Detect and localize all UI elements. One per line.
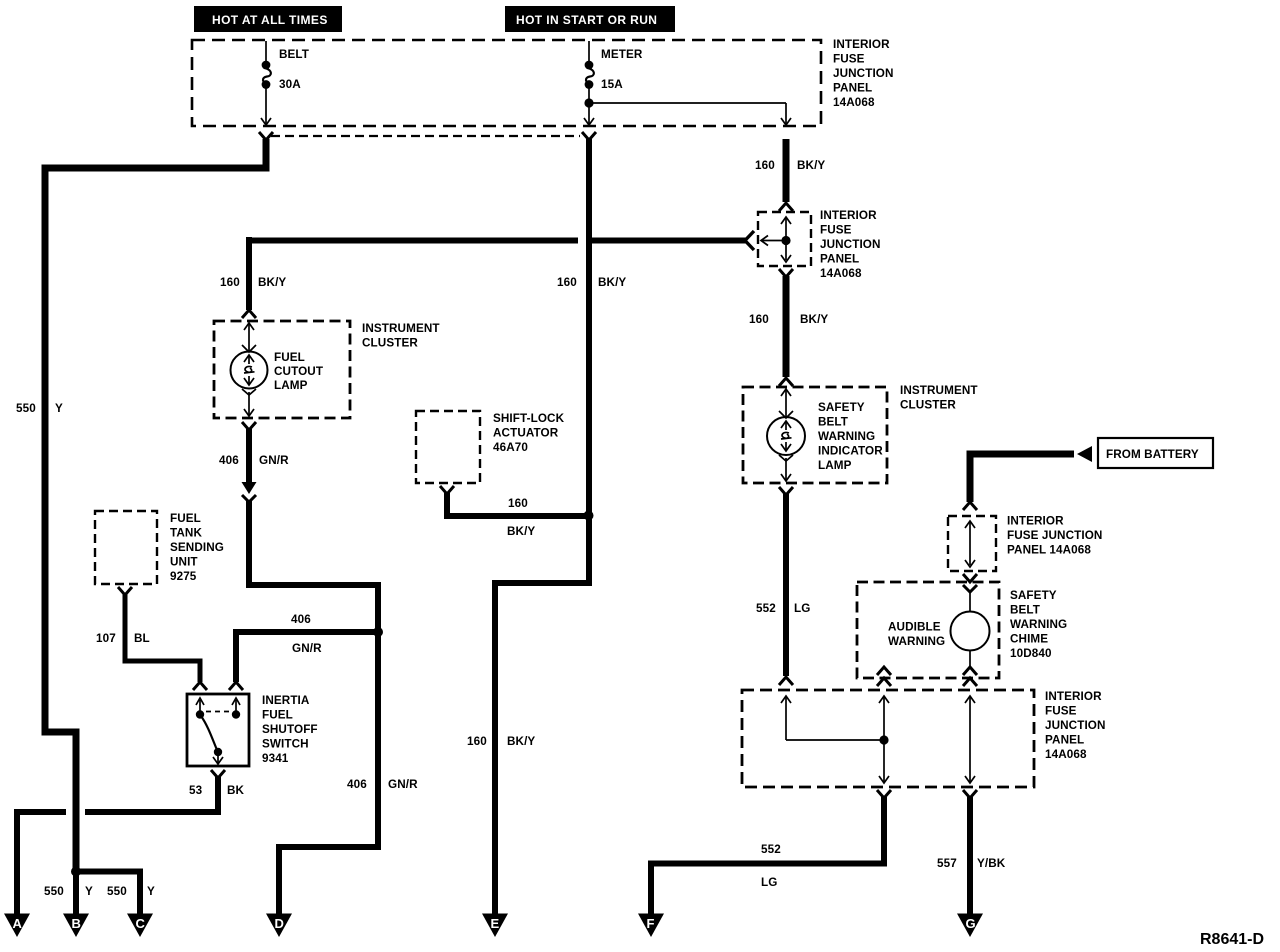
wire 53 BK left of crossover to A arrow: [17, 812, 66, 916]
svg-text:FUSE: FUSE: [820, 224, 852, 237]
svg-text:557: 557: [937, 857, 957, 870]
svg-text:160: 160: [220, 276, 240, 289]
svg-text:550: 550: [44, 885, 64, 898]
svg-text:R8641-D: R8641-D: [1200, 931, 1264, 948]
wire 160 BK/Y horizontal crossover to lamp and panel: [249, 237, 746, 310]
svg-text:FUEL: FUEL: [274, 351, 305, 364]
wire 552 LG lamp to panel: [783, 494, 789, 676]
svg-text:WARNING: WARNING: [1010, 618, 1067, 631]
svg-text:JUNCTION: JUNCTION: [833, 67, 894, 80]
wire 53 BK from inertia switch: [85, 777, 218, 812]
wire 160 BK/Y shift-lock to meter wire: [447, 493, 586, 516]
wire 160 BK/Y: METER fuse down to E corner: [495, 139, 589, 916]
inline connector chevron 406: [242, 495, 256, 502]
svg-text:406: 406: [219, 454, 239, 467]
svg-text:PANEL: PANEL: [820, 253, 859, 266]
label 160 BK/Y (E wire): [467, 735, 535, 748]
svg-text:INTERIOR: INTERIOR: [1045, 690, 1102, 703]
svg-text:ACTUATOR: ACTUATOR: [493, 427, 559, 440]
fuel cutout lamp: [231, 323, 268, 416]
connector chevron below METER fuse: [582, 132, 596, 140]
svg-text:FROM BATTERY: FROM BATTERY: [1106, 448, 1199, 461]
wire 406 GN/R down to junction and D arrow: [249, 500, 378, 916]
svg-text:160: 160: [755, 159, 775, 172]
svg-text:BK/Y: BK/Y: [258, 276, 286, 289]
svg-text:WARNING: WARNING: [888, 635, 945, 648]
label 550 Y (left side): [16, 402, 63, 415]
connector chevron below fuel tank sending unit: [118, 587, 132, 595]
label INTERIOR FUSE JUNCTION PANEL 14A068 (mid right): [820, 209, 881, 280]
label AUDIBLE WARNING: [888, 621, 945, 649]
svg-text:LAMP: LAMP: [818, 459, 852, 472]
label FUEL CUTOUT LAMP: [274, 351, 324, 392]
connector arrow E: [482, 914, 508, 938]
svg-text:CLUSTER: CLUSTER: [900, 399, 956, 412]
connector chevron chime pin 2: [877, 667, 891, 675]
label 160 BK/Y (meter vertical): [557, 276, 626, 289]
svg-text:GN/R: GN/R: [259, 454, 289, 467]
svg-text:10D840: 10D840: [1010, 647, 1052, 660]
svg-text:PANEL 14A068: PANEL 14A068: [1007, 544, 1091, 557]
svg-text:Y: Y: [85, 885, 93, 898]
connector chevron below BELT fuse: [259, 132, 273, 140]
connector chevron chime output: [963, 667, 977, 675]
svg-text:BK/Y: BK/Y: [507, 525, 535, 538]
svg-text:CLUSTER: CLUSTER: [362, 337, 418, 350]
connector arrow B: [63, 914, 89, 938]
svg-text:14A068: 14A068: [820, 267, 862, 280]
right small panel internals: [965, 521, 975, 567]
svg-text:SWITCH: SWITCH: [262, 738, 309, 751]
mid panel internal circuitry: [761, 217, 791, 262]
connector chevron below inertia switch: [211, 770, 225, 778]
svg-text:AUDIBLE: AUDIBLE: [888, 621, 941, 634]
instrument cluster dashed box (left): [214, 321, 350, 418]
label SAFETY BELT WARNING INDICATOR LAMP: [818, 401, 883, 472]
svg-text:30A: 30A: [279, 78, 301, 91]
connector chevron above instrument cluster (left): [242, 310, 256, 318]
label 557 Y/BK: [937, 857, 1006, 870]
svg-text:B: B: [72, 916, 81, 931]
connector chevron below bottom panel (557): [963, 790, 977, 798]
svg-text:HOT IN START OR RUN: HOT IN START OR RUN: [516, 13, 657, 27]
svg-text:JUNCTION: JUNCTION: [820, 238, 881, 251]
fuse METER 15A: [584, 41, 643, 125]
svg-text:A: A: [13, 916, 23, 931]
audible warning chime dashed box: [857, 582, 999, 678]
label 160 BK/Y (safety lamp feed): [749, 313, 828, 326]
interior fuse junction panel 14A068 (top dashed box): [192, 40, 821, 126]
label SHIFT-LOCK ACTUATOR 46A70: [493, 412, 565, 454]
connector arrow C: [127, 914, 153, 938]
connector chevron 552 above bottom panel: [779, 677, 793, 685]
svg-text:F: F: [647, 916, 655, 931]
svg-text:14A068: 14A068: [833, 96, 875, 109]
label SAFETY BELT WARNING CHIME 10D840: [1010, 589, 1067, 660]
wire 552 LG to F arrow: [651, 797, 884, 916]
svg-text:9275: 9275: [170, 570, 197, 583]
power tag HOT IN START OR RUN: [505, 6, 675, 32]
label 53 BK: [189, 784, 245, 797]
label 160 BK/Y (right feed): [755, 159, 825, 172]
FROM BATTERY box: [1098, 438, 1213, 468]
svg-text:BELT: BELT: [818, 416, 849, 429]
internal jumper wire to right panel output: [589, 103, 791, 125]
svg-text:160: 160: [508, 497, 528, 510]
svg-text:Y: Y: [55, 402, 63, 415]
svg-text:D: D: [275, 916, 284, 931]
svg-text:FUEL: FUEL: [262, 709, 293, 722]
label INERTIA FUEL SHUTOFF SWITCH 9341: [262, 694, 318, 765]
wire 550 Y branch to C arrow: [76, 872, 140, 917]
power tag HOT AT ALL TIMES: [194, 6, 342, 32]
wire 406 GN/R branch to inertia switch: [236, 632, 378, 682]
svg-text:CHIME: CHIME: [1010, 633, 1048, 646]
svg-text:Y/BK: Y/BK: [977, 857, 1006, 870]
svg-text:E: E: [491, 916, 500, 931]
label 406 GN/R (lamp out): [219, 454, 289, 467]
label 550 Y (B wire): [44, 885, 93, 898]
wire 160 BK/Y right feed from panel: [783, 139, 790, 202]
connector arrow D: [266, 914, 292, 938]
svg-text:BK/Y: BK/Y: [598, 276, 626, 289]
junction dot bottom panel: [879, 735, 888, 744]
svg-text:550: 550: [107, 885, 127, 898]
label INSTRUMENT CLUSTER (right): [900, 384, 978, 412]
svg-text:FUSE JUNCTION: FUSE JUNCTION: [1007, 529, 1102, 542]
label FUEL TANK SENDING UNIT 9275: [170, 512, 224, 583]
connector chevron above inertia switch pin 1: [193, 682, 207, 690]
connector arrow A: [4, 914, 30, 938]
junction dot mid panel: [781, 236, 790, 245]
connector chevron above instrument cluster (right): [779, 378, 793, 386]
svg-text:HOT AT ALL TIMES: HOT AT ALL TIMES: [212, 13, 328, 27]
bottom panel internals: [781, 696, 975, 783]
wire 550 Y to B arrow: [73, 871, 79, 916]
svg-text:SHUTOFF: SHUTOFF: [262, 723, 318, 736]
svg-text:107: 107: [96, 632, 116, 645]
connector chevron below shift-lock actuator: [440, 486, 454, 494]
interior fuse junction panel small box (mid right): [758, 212, 811, 266]
svg-text:14A068: 14A068: [1045, 748, 1087, 761]
svg-text:METER: METER: [601, 48, 643, 61]
arrowhead from battery: [1077, 446, 1092, 462]
connector chevron below instrument cluster (right): [779, 487, 793, 495]
svg-text:FUSE: FUSE: [1045, 705, 1077, 718]
wire 406 GN/R from lamp: [246, 429, 252, 483]
svg-text:160: 160: [749, 313, 769, 326]
svg-text:JUNCTION: JUNCTION: [1045, 719, 1106, 732]
svg-text:406: 406: [291, 613, 311, 626]
connector flare at panel (open chevron): [745, 231, 754, 250]
connector chevron below mid panel box: [779, 269, 793, 277]
svg-text:406: 406: [347, 778, 367, 791]
svg-text:G: G: [966, 916, 976, 931]
svg-text:GN/R: GN/R: [292, 642, 322, 655]
svg-text:BK/Y: BK/Y: [507, 735, 535, 748]
label INTERIOR FUSE JUNCTION PANEL 14A068 (right): [1007, 515, 1102, 557]
wire 550 Y: BELT fuse down, left, down left side: [45, 139, 266, 869]
junction dot 406 splice: [373, 627, 383, 637]
panel connector dashed line: [271, 135, 580, 137]
svg-text:FUSE: FUSE: [833, 53, 865, 66]
svg-text:INSTRUMENT: INSTRUMENT: [900, 384, 978, 397]
chime circle: [951, 592, 990, 668]
junction dot shift-lock splice: [584, 511, 594, 521]
label 107 BL: [96, 632, 150, 645]
connector chevron chime box top: [963, 585, 977, 592]
svg-text:15A: 15A: [601, 78, 623, 91]
safety belt warning indicator lamp: [767, 389, 805, 481]
interior fuse junction panel small box (right): [948, 516, 996, 571]
connector chevron above inertia switch pin 2: [229, 682, 243, 690]
svg-text:53: 53: [189, 784, 203, 797]
inertia switch internals: [196, 698, 240, 764]
svg-text:GN/R: GN/R: [388, 778, 418, 791]
svg-text:BL: BL: [134, 632, 150, 645]
label INSTRUMENT CLUSTER (left): [362, 322, 440, 350]
label 406 GN/R (D wire): [347, 778, 418, 791]
svg-text:TANK: TANK: [170, 527, 202, 540]
svg-text:INDICATOR: INDICATOR: [818, 445, 883, 458]
svg-text:INSTRUMENT: INSTRUMENT: [362, 322, 440, 335]
label 550 Y (C wire): [107, 885, 155, 898]
svg-text:SAFETY: SAFETY: [1010, 589, 1057, 602]
svg-text:160: 160: [467, 735, 487, 748]
svg-text:46A70: 46A70: [493, 441, 528, 454]
connector chevron chime pin 2 lower: [877, 678, 891, 686]
svg-text:552: 552: [756, 602, 776, 615]
svg-text:BK/Y: BK/Y: [797, 159, 825, 172]
svg-text:SENDING: SENDING: [170, 541, 224, 554]
junction dot 550 splice: [71, 867, 81, 877]
svg-text:552: 552: [761, 843, 781, 856]
label 160 BK/Y (lamp drop): [220, 276, 286, 289]
svg-text:LG: LG: [794, 602, 810, 615]
instrument cluster dashed box (right): [743, 387, 887, 483]
svg-text:BELT: BELT: [279, 48, 310, 61]
inertia fuel shutoff switch box: [187, 694, 249, 766]
svg-text:LAMP: LAMP: [274, 379, 308, 392]
svg-text:BK: BK: [227, 784, 245, 797]
wire 160 BK/Y to safety belt lamp: [783, 276, 790, 377]
connector chevron chime output 2: [963, 678, 977, 686]
svg-text:INERTIA: INERTIA: [262, 694, 310, 707]
connector chevron above right small panel: [963, 502, 977, 510]
svg-text:UNIT: UNIT: [170, 556, 198, 569]
svg-text:PANEL: PANEL: [1045, 734, 1084, 747]
svg-text:WARNING: WARNING: [818, 430, 875, 443]
svg-text:INTERIOR: INTERIOR: [833, 38, 890, 51]
svg-text:550: 550: [16, 402, 36, 415]
shift-lock actuator dashed box: [416, 411, 480, 483]
svg-text:SAFETY: SAFETY: [818, 401, 865, 414]
svg-text:9341: 9341: [262, 752, 289, 765]
fuse BELT 30A: [261, 41, 310, 125]
connector chevron below right small panel: [963, 574, 977, 582]
connector chevron below bottom panel (552): [877, 790, 891, 798]
wire 107 BL to inertia switch: [125, 594, 200, 682]
interior fuse junction panel dashed box (bottom): [742, 690, 1034, 787]
svg-text:BELT: BELT: [1010, 604, 1041, 617]
label INTERIOR FUSE JUNCTION PANEL 14A068 (top): [833, 38, 894, 109]
connector chevron below instrument cluster (left): [242, 422, 256, 430]
svg-text:CUTOUT: CUTOUT: [274, 365, 324, 378]
junction dot on meter fuse output: [584, 98, 593, 107]
inline connector arrow 406: [242, 482, 257, 494]
label INTERIOR FUSE JUNCTION PANEL 14A068 (bottom): [1045, 690, 1106, 761]
fuel tank sending unit dashed box: [95, 511, 157, 584]
svg-text:C: C: [136, 916, 146, 931]
svg-text:PANEL: PANEL: [833, 82, 872, 95]
svg-text:Y: Y: [147, 885, 155, 898]
wire from battery feed: [970, 454, 1074, 502]
svg-text:INTERIOR: INTERIOR: [1007, 515, 1064, 528]
label 552 LG (upper): [756, 602, 810, 615]
svg-text:160: 160: [557, 276, 577, 289]
wire 557 Y/BK to G arrow: [967, 797, 973, 916]
svg-text:INTERIOR: INTERIOR: [820, 209, 877, 222]
svg-text:SHIFT-LOCK: SHIFT-LOCK: [493, 412, 565, 425]
connector arrow G: [957, 914, 983, 938]
svg-text:BK/Y: BK/Y: [800, 313, 828, 326]
connector chevron above mid panel box: [779, 203, 793, 211]
svg-text:FUEL: FUEL: [170, 512, 201, 525]
connector arrow F: [638, 914, 664, 938]
svg-text:LG: LG: [761, 876, 777, 889]
